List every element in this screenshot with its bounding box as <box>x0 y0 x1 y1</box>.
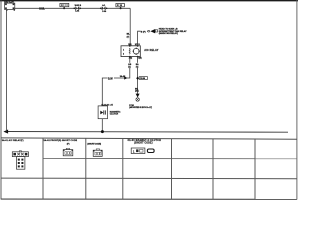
svg-text:( SHORT CODE): ( SHORT CODE) <box>87 144 101 146</box>
svg-text:CLUTCH: CLUTCH <box>110 114 119 116</box>
cell 2 sub label (SHORT CODE) <box>87 144 101 146</box>
junction node clutch/ground bus <box>101 130 104 133</box>
fuse AD 15A <box>60 3 69 9</box>
table column divider 1 <box>42 138 44 199</box>
relay pin labels bottom <box>129 57 142 60</box>
PCM label <box>129 105 152 109</box>
wire battery to fuse row (top feed) <box>15 7 130 9</box>
ground bus wire <box>6 131 289 134</box>
svg-text:(MAIN FAN RELAY): (MAIN FAN RELAY) <box>159 32 178 35</box>
in-line connector W-01 <box>73 5 81 13</box>
wire color label B/W <box>39 7 45 10</box>
svg-text:(MOUNTED IN ECU B+ LT): (MOUNTED IN ECU B+ LT) <box>129 107 152 109</box>
cell 2 connector icon b <box>93 149 102 157</box>
page left border <box>0 0 2 200</box>
wire clutch to ground bus <box>101 119 103 132</box>
svg-text:B (F): B (F) <box>141 31 146 33</box>
battery negative wire down left side <box>5 10 7 132</box>
page top border <box>0 0 298 2</box>
wire relay pin 3 down (to PCM) <box>137 57 139 95</box>
arrow into PCM <box>136 94 140 102</box>
in-line connector A-1 <box>100 4 107 13</box>
ground arrow <box>3 130 8 134</box>
A/C relay U1 <box>121 45 140 57</box>
table mid line A <box>43 157 297 159</box>
svg-text:4(A): 4(A) <box>129 57 133 60</box>
relay pin labels top <box>128 44 140 46</box>
svg-text:3A-01 A/C RELAY(F): 3A-01 A/C RELAY(F) <box>2 139 24 142</box>
table column divider 4 <box>171 139 173 199</box>
svg-text:3A-02 FRONT(R) SHORT CODE: 3A-02 FRONT(R) SHORT CODE <box>44 139 78 142</box>
wire label 1 (F) <box>141 30 147 33</box>
wire relay to fan relay feed (top right) <box>138 31 148 46</box>
magnetic clutch label <box>110 111 121 116</box>
svg-text:(SHORT CODE): (SHORT CODE) <box>134 142 153 144</box>
off-page arrow to fan relay <box>148 29 158 33</box>
wire label B/W <box>108 76 114 80</box>
svg-text:3(B): 3(B) <box>138 58 142 60</box>
magnetic clutch M1 <box>98 106 107 119</box>
table column divider 5 <box>212 139 214 199</box>
cell 3 connector icon <box>131 148 154 154</box>
joint diamond CX-06 <box>136 77 147 81</box>
cell 2 header 3A-02 <box>44 139 78 142</box>
cell 3 header 3A-03 <box>128 139 162 144</box>
cell 2 connector icon a <box>63 148 73 156</box>
wire label B/L <box>127 33 131 38</box>
off-page reference text <box>159 28 187 36</box>
svg-text:(Y): (Y) <box>128 66 131 68</box>
fuse A/C 15A <box>116 4 125 10</box>
connector label above clutch <box>101 105 112 107</box>
A/C relay label <box>144 49 159 52</box>
table mid line B <box>1 177 297 180</box>
svg-text:(Y): (Y) <box>136 66 139 68</box>
wire label L/B <box>128 63 132 69</box>
svg-text:B B/L: B B/L <box>39 7 45 10</box>
page right border <box>296 0 298 200</box>
svg-text:(F): (F) <box>67 144 70 146</box>
cell 1 relay connector icon <box>12 151 28 170</box>
cell 2 sub label (F) <box>67 144 70 146</box>
table column divider 6 <box>254 139 256 199</box>
wire label ECTL <box>135 88 139 92</box>
svg-text:B.W: B.W <box>108 76 113 80</box>
table column divider 3 <box>122 138 124 199</box>
svg-text:1: 1 <box>123 49 124 51</box>
cell 1 header 3A-01 <box>2 139 24 142</box>
svg-text:A/C RELAY: A/C RELAY <box>144 49 159 52</box>
svg-text:(2C): (2C) <box>135 91 139 93</box>
battery B+ <box>4 1 15 11</box>
wire relay pin 2 down (to clutch) <box>102 57 130 106</box>
svg-text:(Y): (Y) <box>127 36 130 38</box>
svg-text:2: 2 <box>123 54 124 56</box>
table column divider 2 <box>85 138 87 199</box>
wire feed down to relay <box>129 8 131 46</box>
wire label B/L 2 <box>135 63 140 69</box>
joint arrow 3A-08 <box>120 75 128 80</box>
table bottom border <box>1 198 297 200</box>
table top border <box>1 138 297 139</box>
